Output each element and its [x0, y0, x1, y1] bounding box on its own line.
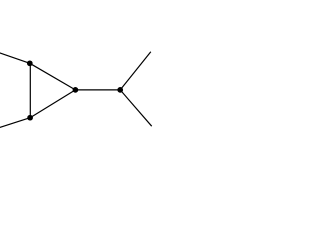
wire edge A-B vertical — [29, 63, 31, 117]
wire edge stub from D up-right — [120, 52, 151, 90]
wire edge stub from D down-right — [120, 90, 152, 126]
wire edge from off-screen left to node B — [0, 118, 30, 128]
node B — [27, 115, 33, 121]
node D — [117, 87, 123, 93]
node A — [27, 60, 33, 66]
node C — [73, 87, 79, 93]
wire edge A-C — [30, 63, 76, 90]
wire edge from off-screen left to node A — [0, 52, 30, 63]
wire edge B-C — [30, 90, 75, 118]
wire edge C-D horizontal — [75, 89, 120, 91]
